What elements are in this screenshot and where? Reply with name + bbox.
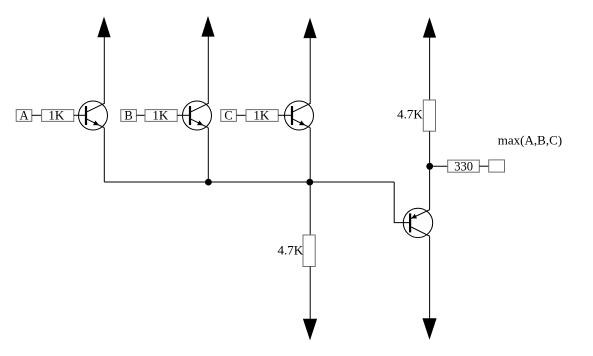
wire rail right upper (+V arrow to resistor R4) (429, 37, 431, 100)
wire resistor R2 to base of Q2 (177, 114, 189, 116)
wire bus junction to resistor R5 (309, 182, 311, 235)
junction dot at emitter of Q3 on bus (306, 179, 313, 186)
junction dot output node (426, 163, 433, 170)
svg-text:max(A,B,C): max(A,B,C) (498, 133, 562, 148)
wire resistor R3 to base of Q3 (278, 114, 291, 116)
svg-text:330: 330 (454, 159, 473, 173)
resistor R6 330 (448, 160, 480, 172)
wire input C to resistor R3 (236, 114, 246, 116)
svg-text:1K: 1K (253, 108, 270, 123)
svg-text:4.7K: 4.7K (397, 106, 423, 121)
wire resistor R6 to output terminal (479, 165, 488, 167)
wire resistor R4 to output node junction and emitter of Q4 (429, 131, 431, 210)
svg-text:C: C (224, 109, 232, 123)
svg-text:1K: 1K (152, 108, 169, 123)
resistor R4 4.7K (pull-up on output emitter node) (423, 100, 435, 131)
wire emitter of Q1 to common bus (103, 128, 105, 182)
transistor Q3 (NPN emitter follower, input C) (285, 101, 314, 130)
wire collector of Q4 to -V arrow (429, 236, 431, 319)
resistor R2 1K (145, 110, 177, 122)
output terminal max(A,B,C) (489, 160, 505, 172)
svg-text:A: A (19, 109, 28, 123)
wire rail C upper (collector to +V arrow) (309, 38, 311, 105)
input terminal B (121, 110, 137, 122)
transistor Q4 (PNP, Vbe compensation) (403, 208, 432, 237)
power supply arrow -V below Q4 (422, 318, 436, 340)
resistor R5 4.7K (pull-down on bus) (303, 235, 315, 267)
wire input A to resistor R1 (32, 114, 42, 116)
wire input B to resistor R2 (136, 114, 145, 116)
power supply arrow +V rail B (201, 16, 214, 37)
wire emitter of Q3 to common bus junction (309, 128, 311, 183)
resistor R3 1K (246, 110, 278, 122)
wire bus to base of Q4 (corner drop) (394, 182, 409, 223)
svg-text:B: B (124, 109, 132, 123)
power supply arrow +V rail C (303, 18, 316, 38)
input terminal C (221, 110, 237, 122)
svg-text:1K: 1K (48, 108, 65, 123)
transistor Q1 (NPN emitter follower, input A) (79, 101, 108, 130)
power supply arrow +V rail right (423, 17, 436, 37)
wire resistor R1 to base of Q1 (74, 114, 85, 116)
power supply arrow -V below R5 (303, 319, 317, 341)
wire emitter of Q2 to common bus junction (207, 128, 209, 182)
wire output node to resistor R6 (430, 165, 448, 167)
transistor Q2 (NPN emitter follower, input B) (183, 101, 212, 130)
wire rail B upper (collector to +V arrow) (207, 36, 209, 104)
wire rail A upper (collector to +V arrow) (103, 37, 105, 105)
svg-text:4.7K: 4.7K (278, 242, 304, 257)
wire resistor R5 to -V arrow (309, 267, 311, 320)
wire common emitter bus (horizontal) (104, 181, 394, 183)
input terminal A (16, 110, 32, 122)
power supply arrow +V rail A (97, 17, 110, 38)
junction dot at emitter of Q2 on bus (205, 179, 212, 186)
resistor R1 1K (42, 110, 74, 122)
